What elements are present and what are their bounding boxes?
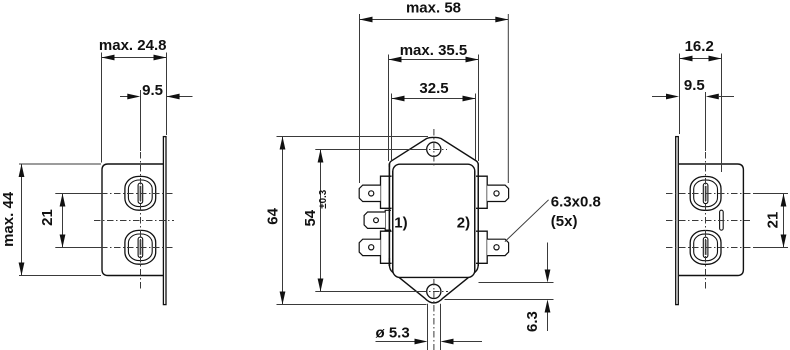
- svg-text:max. 44: max. 44: [0, 191, 17, 247]
- left view mounting plate (edge-on): [163, 137, 166, 305]
- dimension 64: [277, 137, 429, 305]
- svg-text:max. 35.5: max. 35.5: [400, 42, 468, 59]
- svg-text:1): 1): [394, 215, 407, 232]
- svg-text:32.5: 32.5: [419, 80, 448, 97]
- dimension 6.3 bottom right: [445, 243, 554, 332]
- terminal boss left row1: [381, 176, 392, 208]
- left view terminal boss 2: [125, 230, 156, 264]
- centerline bottom hole: [315, 291, 420, 293]
- dimension max. 58: [360, 14, 509, 183]
- svg-text:21: 21: [39, 209, 56, 226]
- dimension max. 24.8: [102, 53, 167, 163]
- dimension 54 +/-0.3: [320, 150, 322, 292]
- left view filter body: [102, 164, 164, 276]
- right view mounting plate (edge-on): [676, 137, 679, 305]
- left view centerline terminal 2: [55, 247, 101, 249]
- dimension 21 right view: [783, 194, 785, 248]
- svg-text:64: 64: [265, 207, 282, 224]
- svg-text:6.3: 6.3: [524, 311, 541, 332]
- svg-text:max. 24.8: max. 24.8: [99, 37, 167, 54]
- bracket top flange: [389, 137, 478, 167]
- bracket edge restrike right: [477, 164, 479, 267]
- bracket bottom mounting hole: [427, 284, 441, 298]
- terminal tab middle: [364, 212, 385, 228]
- right view filter body: [679, 164, 743, 276]
- dimension 16.2: [680, 54, 722, 173]
- terminal tab left row1: [359, 185, 380, 201]
- svg-text:9.5: 9.5: [684, 77, 705, 94]
- svg-text:±0.3: ±0.3: [318, 189, 329, 209]
- dimension 9.5 left view: [120, 96, 193, 98]
- svg-text:21: 21: [765, 212, 782, 229]
- left view centerline vertical: [55, 90, 174, 291]
- right view terminal boss 1: [690, 177, 721, 211]
- left view centerline middle: [94, 220, 174, 222]
- right view terminal boss 2: [690, 231, 721, 265]
- dimension max. 35.5: [389, 55, 479, 162]
- svg-text:(5x): (5x): [551, 213, 578, 230]
- left view terminal boss 1: [125, 176, 156, 210]
- filter body front: [393, 164, 475, 277]
- centerline top hole: [315, 129, 448, 350]
- svg-text:2): 2): [457, 215, 470, 232]
- right view centerlines: [666, 92, 788, 291]
- bracket side edges: [388, 164, 390, 267]
- terminal middle boss step: [385, 210, 391, 230]
- dimension diameter 5.3: [376, 304, 483, 350]
- bracket bottom flange: [389, 258, 478, 303]
- terminal boss left row3: [381, 231, 392, 263]
- svg-text:9.5: 9.5: [142, 82, 163, 99]
- terminal boss right row1: [476, 176, 487, 208]
- callout 6.3x0.8 (5x) leader: [505, 200, 549, 242]
- left view centerline terminal 1: [55, 193, 101, 195]
- bracket top mounting hole: [427, 142, 441, 156]
- dimension 21 left view: [62, 194, 64, 248]
- right view middle tab slot: [720, 210, 724, 230]
- svg-text:54: 54: [302, 209, 319, 226]
- terminal boss right row3: [476, 231, 487, 263]
- dimension 32.5: [392, 94, 476, 161]
- svg-text:16.2: 16.2: [685, 38, 714, 55]
- terminal tab left row3: [359, 239, 380, 255]
- svg-text:6.3x0.8: 6.3x0.8: [551, 193, 601, 210]
- svg-text:max. 58: max. 58: [406, 0, 461, 16]
- bracket edge restrike left: [388, 164, 390, 267]
- dimension max. 44: [19, 164, 101, 276]
- terminal tab right row1: [487, 185, 508, 201]
- terminal tab right row3: [487, 239, 508, 255]
- svg-text:ø 5.3: ø 5.3: [376, 325, 410, 342]
- dimension 9.5 right view: [652, 92, 734, 151]
